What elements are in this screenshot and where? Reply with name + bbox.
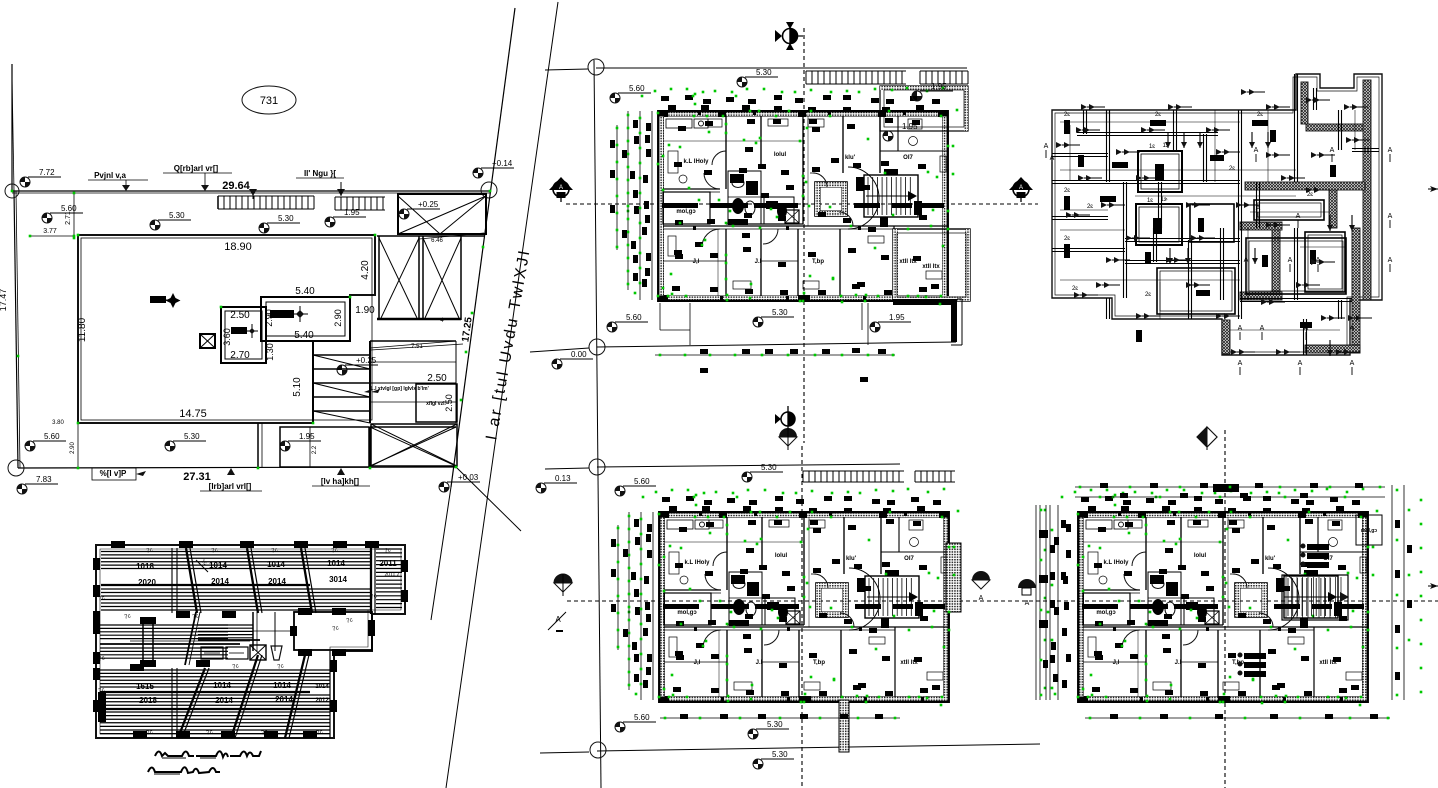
svg-text:1014: 1014 (273, 681, 291, 690)
label text top 1 (88, 171, 148, 191)
svg-text:5.60: 5.60 (634, 477, 650, 486)
plan C green dots (627, 87, 959, 306)
axis dashed plan C horizontal (566, 203, 1038, 205)
svg-text:3.80: 3.80 (52, 420, 64, 426)
svg-text:2.90: 2.90 (333, 309, 343, 327)
svg-text:5.30: 5.30 (184, 432, 200, 441)
svg-text:J.l: J.l (1175, 660, 1182, 666)
bottom label 2 (200, 468, 262, 491)
plan D room 1e1y upper (1138, 143, 1182, 192)
dim text 5.40 top (295, 286, 315, 297)
plan D hatched duct v5 (1222, 320, 1230, 354)
svg-text:27.31: 27.31 (183, 471, 211, 483)
bottom-right x-braced rect (371, 424, 457, 466)
plan F stair extra (1282, 575, 1349, 620)
svg-text:k.L lHoly: k.L lHoly (685, 560, 711, 566)
section symbol plan E right disc (1018, 579, 1036, 607)
svg-text:J,l: J,l (693, 259, 700, 265)
axis dashed plan F vertical (1224, 430, 1226, 788)
plan E marker 5.30 site (753, 750, 794, 769)
plan E marker 5.30 (742, 463, 783, 482)
svg-text:2012: 2012 (315, 698, 329, 704)
svg-text:7.83: 7.83 (36, 475, 52, 484)
bottom label 3 (312, 468, 370, 486)
svg-text:klu': klu' (846, 556, 857, 562)
svg-text:*l..l xtvlgl [g: *l..l xtvlgl [g (369, 386, 397, 392)
svg-text:5.30: 5.30 (772, 750, 788, 759)
svg-text:A: A (1260, 325, 1265, 332)
marker 7.72 (20, 168, 61, 187)
svg-text:2014: 2014 (275, 695, 293, 704)
slab right column rebar (376, 549, 402, 608)
x-box symbol (200, 334, 215, 348)
svg-text:5.10: 5.10 (292, 377, 303, 397)
survey circle top-right (481, 182, 497, 198)
dim text 2.50 (230, 310, 250, 321)
svg-text:klu': klu' (1265, 556, 1276, 562)
plan C top-right wing (880, 86, 968, 131)
plan C bottom tick row (655, 348, 895, 382)
svg-text:A: A (1244, 257, 1249, 264)
plan D small rooms right (1190, 200, 1345, 292)
svg-text:2ɛ: 2ɛ (1229, 166, 1235, 172)
svg-text:5.60: 5.60 (626, 313, 642, 322)
site line plan E bottom (540, 744, 1040, 753)
plan E left dim lines (617, 512, 653, 700)
svg-text:p] lgIvlx b'lm': p] lgIvlx b'lm' (397, 386, 429, 392)
svg-text:1.95: 1.95 (344, 208, 360, 217)
svg-text:mol,gɔ: mol,gɔ (677, 610, 697, 616)
truss top chord (377, 233, 484, 244)
svg-text:OI7: OI7 (904, 556, 914, 562)
plan C marker 5.30 bottom (753, 308, 794, 327)
svg-text:6.46: 6.46 (431, 238, 443, 244)
slab mid small rebar (198, 625, 260, 640)
plan F top dim ticks (1050, 496, 1360, 696)
plan D hatched duct h4 (1305, 345, 1360, 353)
plan D hatched duct vertical right (1363, 80, 1371, 300)
dim text 3.60 (222, 328, 232, 346)
svg-text:mol,gɔ: mol,gɔ (676, 209, 696, 215)
bottom strip divider 1 (258, 423, 262, 468)
plan C apartment walls (658, 111, 948, 301)
svg-text:3.77: 3.77 (43, 228, 57, 235)
plan C marker 1.95 right (883, 122, 924, 141)
svg-text:5.30: 5.30 (767, 720, 783, 729)
svg-text:Pvjnl v,a: Pvjnl v,a (94, 171, 126, 180)
plan C bottom small annex lines (660, 303, 868, 345)
svg-text:+0.25: +0.25 (356, 356, 377, 365)
svg-text:3.60: 3.60 (222, 328, 232, 346)
dim text 1.90 (355, 305, 375, 316)
svg-text:1ɛ: 1ɛ (1149, 144, 1155, 150)
slab top band labels (136, 559, 400, 587)
svg-text:2014: 2014 (215, 696, 233, 705)
svg-text:A: A (979, 595, 984, 602)
svg-text:mol,gɔ: mol,gɔ (1096, 610, 1116, 616)
site line plan C bottom slope (530, 342, 956, 352)
svg-text:1.95: 1.95 (889, 313, 905, 322)
svg-text:2.70: 2.70 (230, 350, 250, 361)
svg-text:1014: 1014 (267, 560, 285, 569)
svg-text:A: A (1350, 360, 1355, 367)
vertical dim 3.77 (30, 228, 74, 236)
plan F top dim rows (1075, 483, 1385, 498)
label text top 2 (163, 164, 232, 191)
plan F right dim cols (1392, 485, 1422, 700)
svg-text:A: A (1298, 360, 1303, 367)
svg-text:4.20: 4.20 (360, 260, 371, 280)
svg-text:5.30: 5.30 (756, 68, 772, 77)
section symbol right edge mid (1428, 186, 1438, 192)
dim text 2.90 left (264, 309, 274, 327)
building footprint outline (78, 235, 375, 423)
svg-text:1014: 1014 (213, 681, 231, 690)
top hatch strip 2 (335, 197, 385, 210)
svg-text:Q[rb]arl vr[]: Q[rb]arl vr[] (174, 164, 219, 173)
plan D hatched duct v2 (1329, 190, 1337, 228)
section symbol plan F top (1197, 427, 1217, 450)
plan D outer inner line (1055, 77, 1379, 352)
slab vertical strip top band (172, 548, 177, 613)
plan D hatched duct v4 (1352, 228, 1360, 353)
svg-text:+0.03: +0.03 (458, 473, 479, 482)
plan C marker 5.60 (610, 84, 651, 103)
svg-text:3014: 3014 (329, 575, 347, 584)
svg-text:A: A (1025, 600, 1030, 607)
grid circle 2 (589, 339, 605, 355)
svg-text:5.60: 5.60 (629, 84, 645, 93)
svg-text:5.60: 5.60 (634, 713, 650, 722)
svg-text:2ɛ: 2ɛ (1145, 292, 1151, 298)
svg-text:5.30: 5.30 (169, 211, 185, 220)
svg-text:1018: 1018 (136, 562, 154, 571)
plan E terrace band right (946, 543, 961, 612)
svg-text:5.30: 5.30 (278, 214, 294, 223)
plan C marker 5.30 (737, 68, 778, 87)
slab plan inner offset (100, 549, 401, 734)
slab plan outline (96, 545, 405, 738)
svg-text:2ɛ: 2ɛ (1064, 236, 1070, 242)
plan E apartment walls (659, 512, 949, 702)
svg-text:2.90: 2.90 (70, 442, 76, 454)
svg-text:2ɛ: 2ɛ (1307, 192, 1313, 198)
dim text 2.90 right (333, 309, 343, 327)
grid circle 4 (590, 742, 606, 758)
plan F green dots (1047, 488, 1379, 707)
svg-text:A: A (1388, 257, 1393, 264)
svg-text:14.75: 14.75 (179, 408, 207, 420)
svg-text:1014: 1014 (315, 684, 329, 690)
dim text 29.64 (222, 180, 250, 192)
plan F top-right room (1356, 515, 1382, 545)
marker 1.95 a (325, 208, 366, 227)
svg-text:1.95: 1.95 (902, 122, 918, 131)
svg-text:[lv ha]kh[]: [lv ha]kh[] (321, 477, 360, 486)
section symbol below C filled (779, 428, 797, 450)
slab bottom diagonal beams (178, 651, 330, 738)
svg-text:17.47: 17.47 (0, 289, 8, 312)
slab left black bar (98, 692, 106, 722)
bottom vertical dim 2.90 (70, 423, 78, 468)
long slanted site line with text (446, 2, 558, 788)
plan C right wing lower room (893, 229, 970, 301)
section symbol plan C top (775, 22, 803, 50)
svg-text:mol,gɔ: mol,gɔ (1361, 528, 1377, 534)
grid circle 1 (588, 59, 604, 75)
slab column blobs (93, 541, 408, 738)
svg-text:lolul: lolul (774, 152, 787, 158)
svg-text:2ɛ: 2ɛ (1064, 112, 1070, 118)
plan C left dim blobs (610, 120, 650, 276)
dim text 18.90 (224, 241, 252, 253)
plan C marker 1.95 top (912, 82, 953, 101)
plan E top dim ticks (631, 496, 941, 696)
right small box 2.50 (416, 373, 457, 422)
dim text 5.10 (292, 377, 303, 397)
slab mid-left rebar (100, 625, 250, 658)
svg-text:+0.25: +0.25 (418, 200, 439, 209)
truss bottom chord (377, 318, 461, 321)
svg-text:lolul: lolul (1194, 553, 1207, 559)
plan E top hatch ladder (803, 471, 955, 482)
black bar with star in big room (150, 293, 181, 308)
dim text 1.30 (265, 343, 275, 361)
svg-text:A: A (559, 185, 563, 191)
svg-text:2ɛ: 2ɛ (1087, 204, 1093, 210)
dim text 4.20 (360, 260, 371, 280)
svg-text:OI7: OI7 (903, 155, 913, 161)
svg-text:A: A (1238, 325, 1243, 332)
slab stair room (290, 608, 375, 656)
svg-text:%[l v]P: %[l v]P (100, 469, 127, 478)
marker +0.25 right (399, 200, 440, 219)
plan C marker 5.60 bottom (607, 313, 648, 332)
axis dashed plan E vertical (801, 446, 803, 788)
svg-text:A: A (1019, 185, 1023, 191)
dim text 5.40 bottom (294, 330, 314, 341)
svg-text:A: A (1330, 147, 1335, 154)
svg-text:1.95: 1.95 (299, 432, 315, 441)
site line plan C top (545, 68, 967, 70)
grid line vertical slanted (594, 60, 601, 788)
svg-text:1ɝ: 1ɝ (1160, 197, 1167, 203)
plan D hatched duct horizontal mid (1245, 182, 1365, 190)
svg-text:1014: 1014 (209, 561, 227, 570)
plan C top hatch ladder 1 (806, 71, 906, 84)
svg-text:k.L lHoly: k.L lHoly (1104, 560, 1130, 566)
axis dashed plan EF horizontal (567, 600, 1438, 602)
label text top 3 (296, 169, 344, 178)
vertical dim 2.71 (65, 192, 75, 240)
marker 5.60 left (42, 204, 83, 223)
dim 7.51 line (371, 344, 463, 350)
svg-text:T,bp: T,bp (812, 259, 824, 265)
svg-text:A: A (1388, 147, 1393, 154)
site line plan E top (545, 464, 900, 469)
survey circle bottom-left (8, 460, 24, 476)
svg-text:lolul: lolul (775, 553, 788, 559)
section symbol plan E right triangle (972, 571, 990, 602)
svg-text:A: A (1044, 143, 1049, 150)
marker +0.03 bottom right (439, 473, 480, 492)
plan C marker 1.95 bottom (870, 313, 911, 332)
section symbol right edge low (1428, 583, 1438, 589)
stair box (261, 297, 350, 341)
svg-text:1.30: 1.30 (265, 343, 275, 361)
svg-text:2ɛ: 2ɛ (1197, 292, 1203, 298)
svg-text:2.71: 2.71 (65, 211, 72, 225)
axis dashed plan C vertical (803, 28, 805, 443)
survey circle top-left (5, 184, 19, 198)
rotated street text (483, 247, 534, 441)
svg-text:1615: 1615 (136, 682, 154, 691)
site plan lot line lower segment (431, 487, 451, 620)
plan D outer boundary (1052, 74, 1382, 355)
svg-text:0.13: 0.13 (555, 474, 571, 483)
plan E green dots (628, 488, 960, 707)
plan F radiator bars top (1301, 544, 1330, 569)
svg-text:J.l: J.l (755, 259, 762, 265)
slab vertical strip bottom band (172, 668, 177, 738)
svg-text:1.90: 1.90 (355, 305, 375, 316)
tall truss left bay (379, 236, 419, 320)
svg-text:5.40: 5.40 (295, 286, 315, 297)
grid circle 3 (589, 459, 605, 475)
svg-text:1014: 1014 (327, 559, 345, 568)
slab arabic caption (148, 751, 261, 774)
svg-text:A: A (1256, 205, 1261, 212)
svg-text:2011: 2011 (379, 559, 397, 568)
svg-text:A: A (1316, 257, 1321, 264)
svg-text:[Irb]arl vrl[]: [Irb]arl vrl[] (209, 482, 252, 491)
slab beam tick 1 (196, 558, 208, 572)
hatched strip mid (313, 341, 370, 423)
marker +0.25 mid (337, 356, 378, 375)
slab top band diagonal beams (186, 545, 375, 614)
svg-text:A: A (1304, 325, 1309, 332)
svg-text:5.60: 5.60 (44, 432, 60, 441)
marker 7.83 (17, 475, 58, 494)
svg-text:J.l: J.l (756, 660, 763, 666)
bottom label 1 (92, 468, 146, 480)
marker 5.30 a (150, 211, 191, 230)
slab bottom band rebar (100, 670, 330, 734)
svg-text:2011.2: 2011.2 (385, 572, 400, 578)
plan E bottom dim row (660, 714, 900, 719)
section symbol plan C right (1009, 177, 1033, 202)
svg-text:2ɛ: 2ɛ (1064, 188, 1070, 194)
plan D hatched duct h2 (1240, 222, 1282, 230)
slab mid-left column (140, 617, 156, 667)
svg-text:2.50: 2.50 (427, 373, 447, 384)
plan D arrows (1056, 89, 1372, 356)
section symbol below C diamond (775, 406, 795, 432)
plan D internal walls (1052, 74, 1379, 355)
plan D 2e labels (1064, 112, 1313, 298)
site plan lot boundary left line (12, 64, 20, 468)
plan C top dim ticks (630, 95, 940, 295)
svg-text:18.90: 18.90 (224, 241, 252, 253)
svg-text:2ɛ: 2ɛ (1155, 112, 1161, 118)
plan D bottom rooms (1157, 238, 1346, 314)
plan F bottom dim row (1085, 714, 1390, 719)
plan E left dim blobs (611, 519, 651, 675)
label mid right (371, 386, 429, 393)
svg-text:2ɛ: 2ɛ (1072, 286, 1078, 292)
plan D hatched duct h3 (1240, 292, 1282, 300)
arrow label small (364, 386, 397, 393)
dim text 17.47 (0, 289, 8, 312)
stair box black bar (270, 306, 308, 322)
svg-text:A: A (1050, 155, 1055, 162)
svg-text:T,bp: T,bp (813, 660, 825, 666)
plan C left dim lines (616, 111, 652, 300)
plan D extra walls (1052, 110, 1342, 319)
svg-text:klu': klu' (845, 155, 856, 161)
plan D hatched duct top leg (1301, 82, 1308, 124)
slab mid boxes (201, 645, 282, 660)
svg-text:731: 731 (260, 95, 278, 107)
site plan lot boundary bottom line (18, 467, 521, 531)
plan C top hatch ladder 2 (920, 71, 968, 84)
svg-text:Il' Ngu }[: Il' Ngu }[ (304, 169, 336, 178)
slab corridor verticals (253, 612, 294, 651)
svg-text:11.80: 11.80 (77, 317, 88, 342)
top hatch strip 1 (218, 189, 314, 209)
plan D hatched duct v3 (1272, 230, 1280, 294)
svg-text:5.30: 5.30 (761, 463, 777, 472)
plan C terrace thick edge (893, 299, 962, 345)
plan E marker 5.30 bottom (748, 720, 789, 739)
top hatch arrow (337, 182, 345, 196)
bottom vertical dim 3.80 (52, 420, 64, 426)
svg-text:2018: 2018 (139, 696, 157, 705)
slab mid band2 diag (185, 612, 200, 665)
marker 0.00 (552, 350, 593, 369)
svg-text:5.30: 5.30 (772, 308, 788, 317)
svg-text:k.L lHoly: k.L lHoly (684, 159, 710, 165)
slab bottom labels (136, 681, 329, 705)
dim text 17.25 (460, 316, 474, 343)
section symbol plan C left (549, 177, 573, 202)
plan D hatched duct top horiz (1306, 124, 1363, 131)
marker 5.60 bottom (25, 432, 66, 451)
svg-text:+0.14: +0.14 (492, 159, 513, 168)
plan F left dim cols (1036, 505, 1066, 700)
dim text 2.70 (230, 350, 250, 361)
svg-text:A: A (1254, 147, 1259, 154)
svg-text:5.40: 5.40 (294, 330, 314, 341)
plan D thin wiring lines (1060, 110, 1355, 330)
svg-text:A: A (1296, 213, 1301, 220)
dim text 27.31 (183, 471, 211, 483)
svg-text:J,l: J,l (694, 660, 701, 666)
plan E bottom hatch strip (839, 700, 849, 752)
building footprint inner line (81, 238, 372, 420)
section symbol plan E left (554, 574, 572, 596)
svg-text:2014: 2014 (211, 577, 229, 586)
bottom right x rect (370, 427, 456, 467)
top-right braced rect (398, 194, 486, 234)
svg-text:A: A (1238, 360, 1243, 367)
svg-text:29.64: 29.64 (222, 180, 250, 192)
dim text 14.75 (179, 408, 207, 420)
svg-text:2014: 2014 (268, 577, 286, 586)
svg-text:0.00: 0.00 (571, 350, 587, 359)
plan D extra bars (1078, 155, 1336, 328)
svg-text:xtIl ltx: xtIl ltx (922, 264, 940, 270)
